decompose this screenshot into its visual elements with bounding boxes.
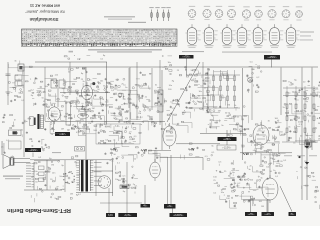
svg-text:≈+86V≈: ≈+86V≈ bbox=[223, 138, 232, 141]
svg-text:mit Röhre AZ 11: mit Röhre AZ 11 bbox=[29, 3, 60, 8]
svg-text:Stromlaufplan: Stromlaufplan bbox=[29, 17, 58, 22]
svg-text:6,3V: 6,3V bbox=[108, 215, 113, 217]
svg-text:1M: 1M bbox=[164, 67, 167, 69]
svg-text:1M: 1M bbox=[88, 123, 91, 125]
svg-text:≈2x300V≈: ≈2x300V≈ bbox=[173, 214, 184, 217]
svg-text:≈+250V≈: ≈+250V≈ bbox=[267, 56, 277, 59]
svg-text:≈+75V≈: ≈+75V≈ bbox=[182, 56, 191, 59]
svg-text:1M: 1M bbox=[51, 164, 54, 166]
svg-text:1M: 1M bbox=[227, 105, 230, 107]
svg-text:1M: 1M bbox=[261, 206, 264, 208]
svg-text:≈6,3V≈: ≈6,3V≈ bbox=[124, 214, 132, 217]
svg-text:1M: 1M bbox=[195, 81, 198, 83]
svg-text:∿W: ∿W bbox=[141, 149, 148, 153]
svg-text:1M: 1M bbox=[256, 134, 259, 136]
svg-text:≈4V≈: ≈4V≈ bbox=[167, 205, 173, 208]
svg-text:×2: ×2 bbox=[77, 57, 81, 61]
svg-text:≈+5V≈: ≈+5V≈ bbox=[248, 213, 255, 216]
svg-text:1M: 1M bbox=[138, 113, 141, 115]
svg-text:1M: 1M bbox=[92, 108, 95, 110]
svg-text:1M: 1M bbox=[61, 128, 64, 130]
svg-text:≈-13,5V≈: ≈-13,5V≈ bbox=[222, 146, 232, 149]
svg-text:1M: 1M bbox=[272, 159, 275, 161]
svg-text:≈+242V≈: ≈+242V≈ bbox=[28, 149, 38, 152]
svg-text:RFT-Stern-Radio Berlin: RFT-Stern-Radio Berlin bbox=[7, 207, 71, 213]
svg-text:für Mittelsuper „Berlin“: für Mittelsuper „Berlin“ bbox=[25, 10, 65, 15]
svg-text:1M: 1M bbox=[300, 122, 303, 124]
svg-text:∿W: ∿W bbox=[188, 148, 195, 152]
svg-text:1M: 1M bbox=[304, 161, 307, 163]
svg-text:∿W: ∿W bbox=[243, 152, 250, 156]
svg-text:1M: 1M bbox=[218, 110, 221, 112]
svg-text:≈+2V≈: ≈+2V≈ bbox=[264, 213, 271, 216]
svg-text:∿W: ∿W bbox=[110, 148, 117, 152]
svg-text:1M: 1M bbox=[70, 193, 73, 195]
